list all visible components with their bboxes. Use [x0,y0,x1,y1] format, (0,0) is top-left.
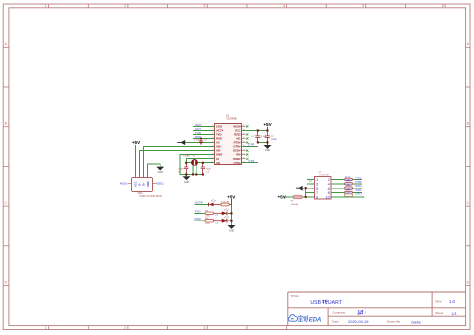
svg-text:0R: 0R [347,184,350,187]
svg-text:22pF: 22pF [206,168,212,170]
svg-text:10uF: 10uF [271,138,277,141]
wire P1 pin5 to ground [303,187,315,189]
svg-text:1/1: 1/1 [451,311,457,316]
svg-text:D+: D+ [142,182,146,186]
svg-text:0R: 0R [347,188,350,191]
wire R2 to LED D2 [214,212,222,214]
wire RXD row [195,220,206,222]
svg-text:CTS: CTS [248,159,254,163]
capacitor C7 0.1uF on V3 [194,138,208,145]
wire U1 GND to crystal rail [180,155,215,175]
capacitor C3 22pF (left) [178,163,188,175]
capacitor C1 0.1uF [251,131,267,143]
wire XO [187,162,215,164]
resistor R1 [221,202,230,206]
svg-text:4: 4 [283,4,285,8]
wire V3 [185,142,215,144]
svg-text:REV:: REV: [435,299,442,303]
svg-text:GaAs: GaAs [411,319,421,324]
svg-text:USB-CONN-MINI: USB-CONN-MINI [139,195,162,198]
svg-text:1: 1 [45,4,47,8]
svg-text:+5V: +5V [132,140,141,145]
LED D1 (points left) [209,199,216,206]
wire +5V to fuse [284,196,293,198]
crystal Y1 12MHz [183,156,197,166]
svg-text:2020-09-19: 2020-09-19 [348,319,369,324]
svg-text:1.0: 1.0 [449,299,456,304]
svg-text:12: 12 [243,157,245,159]
svg-text:D-: D- [138,183,142,186]
svg-text:2: 2 [124,4,126,8]
svg-text:5: 5 [362,4,364,8]
wire VCC to +5V [242,130,268,132]
IC U1 CH340B [211,113,246,164]
svg-text:17: 17 [243,137,245,139]
svg-text:Drawn By:: Drawn By: [387,320,401,324]
wire P1 pin5-pin9 vertical [305,188,307,197]
svg-text:VCC: VCC [134,181,138,187]
USB connector CN1 [120,178,164,198]
svg-text:16: 16 [243,141,245,143]
svg-text:CH340B: CH340B [226,117,236,121]
svg-text:B: B [5,122,7,126]
svg-text:10: 10 [325,195,330,200]
capacitor C2 10uF [265,131,277,143]
title block [288,292,466,326]
wire cap bottom rail [258,141,268,143]
junction dots header left [305,187,307,198]
title text USB转UART [310,299,457,324]
junction dots crystal network [185,162,204,176]
svg-text:12MHz: 12MHz [183,156,190,158]
svg-text:18: 18 [243,133,245,135]
wire CN1 VCC to +5V [135,145,137,177]
wire TXD row [195,212,206,214]
wire LED D3 to rail [227,220,232,222]
svg-text:22pF: 22pF [179,168,185,170]
svg-text:4.7K: 4.7K [205,223,210,225]
svg-text:UART: UART [328,300,343,306]
LED D2 (points right) [222,208,229,215]
LCEDA logo [288,315,321,324]
svg-text:+5V: +5V [278,194,287,199]
wire P1 pin1 [307,178,314,180]
wire R3 to LED D3 [214,220,222,222]
wires P1 right pins to jumpers [331,179,364,197]
resistor R8 (not fitted) [345,194,353,197]
wire ACT row [195,204,209,206]
svg-text:3: 3 [204,326,206,330]
wire RXD [193,138,215,140]
ground (left-pointing) on V3 [177,140,185,145]
svg-text:MSD2: MSD2 [156,182,164,186]
power flag +5V (above caps) [263,122,272,130]
svg-text:CKO: CKO [355,192,362,196]
wire P1 pin9 [302,196,314,198]
svg-text:GND: GND [146,181,150,187]
wire LED D1 to R1 [214,204,221,206]
wire DTR [242,146,258,148]
ground (USB) [156,167,164,175]
resistor R4 0R [345,178,353,182]
resistor R6 0R [345,187,353,191]
capacitor C4 22pF (right) [201,163,212,175]
resistor R3 [205,218,214,225]
svg-text:ACT#: ACT# [195,201,203,205]
svg-text:4.7K: 4.7K [221,202,226,204]
svg-text:0R: 0R [347,180,350,183]
fuse F1 [291,195,302,206]
no-connect X marks on U1 right pins [246,125,248,160]
svg-text:500mA: 500mA [291,203,298,206]
company CJK 没有! [358,310,363,314]
svg-text:14: 14 [243,149,245,151]
resistor R5 0R [345,183,353,187]
svg-text:GND: GND [184,182,189,184]
wire CTS [242,162,258,164]
wire CN1 GND [148,164,161,177]
wire TXD [193,134,215,136]
ground below C2 [264,142,272,152]
wire P1 pin7 [306,192,315,194]
svg-text:20: 20 [243,125,245,127]
ground (LED block) [228,225,236,233]
wire ACT [193,130,215,132]
svg-text:2: 2 [124,326,126,330]
svg-text:GND: GND [265,150,270,152]
svg-text:DTR: DTR [248,142,255,146]
svg-text:+5V: +5V [263,122,272,127]
svg-text:B: B [467,122,469,126]
power flag +5V (LED block) [227,194,236,204]
crystal case ground stubs [193,166,196,175]
svg-text:TITLE:: TITLE: [290,294,299,298]
svg-text:13: 13 [243,153,245,155]
svg-text:USB: USB [310,300,321,306]
svg-text:GND: GND [158,172,163,174]
svg-text:RXD: RXD [195,217,202,221]
svg-text:GND: GND [229,231,234,233]
ground below crystal [183,175,191,185]
wire P1 pin3 [307,183,314,185]
wire LED D2 to rail [227,212,232,214]
svg-text:!: ! [365,311,366,315]
LED D3 (points right) [222,216,229,223]
svg-text:1: 1 [45,326,47,330]
wire CKO (U1 pin1) [193,126,215,128]
svg-text:0.1uF: 0.1uF [194,140,200,142]
svg-text:6: 6 [442,4,444,8]
svg-text:MSD1: MSD1 [120,182,128,186]
svg-text:Company:: Company: [332,310,346,314]
header P1 2.54-2*5P [315,172,332,200]
svg-text:CTS#: CTS# [234,161,241,165]
wire XI [187,159,215,163]
svg-text:EDA: EDA [309,317,322,323]
svg-text:Date:: Date: [332,320,339,324]
svg-text:TXD: TXD [195,209,202,213]
wire LED rail [231,205,233,226]
svg-text:3: 3 [204,4,206,8]
wire UD- [140,151,215,178]
resistor R2 [205,210,214,217]
junction dots VCC net [257,129,269,143]
junction dots LED rail [230,212,232,222]
wire R1 to +5V rail [229,204,231,206]
svg-text:Sheet:: Sheet: [435,311,444,315]
wire UD+ [144,147,215,178]
resistor R7 0R [345,191,353,195]
ground (left-pointing, header) [296,186,303,191]
svg-text:+5V: +5V [227,194,236,199]
